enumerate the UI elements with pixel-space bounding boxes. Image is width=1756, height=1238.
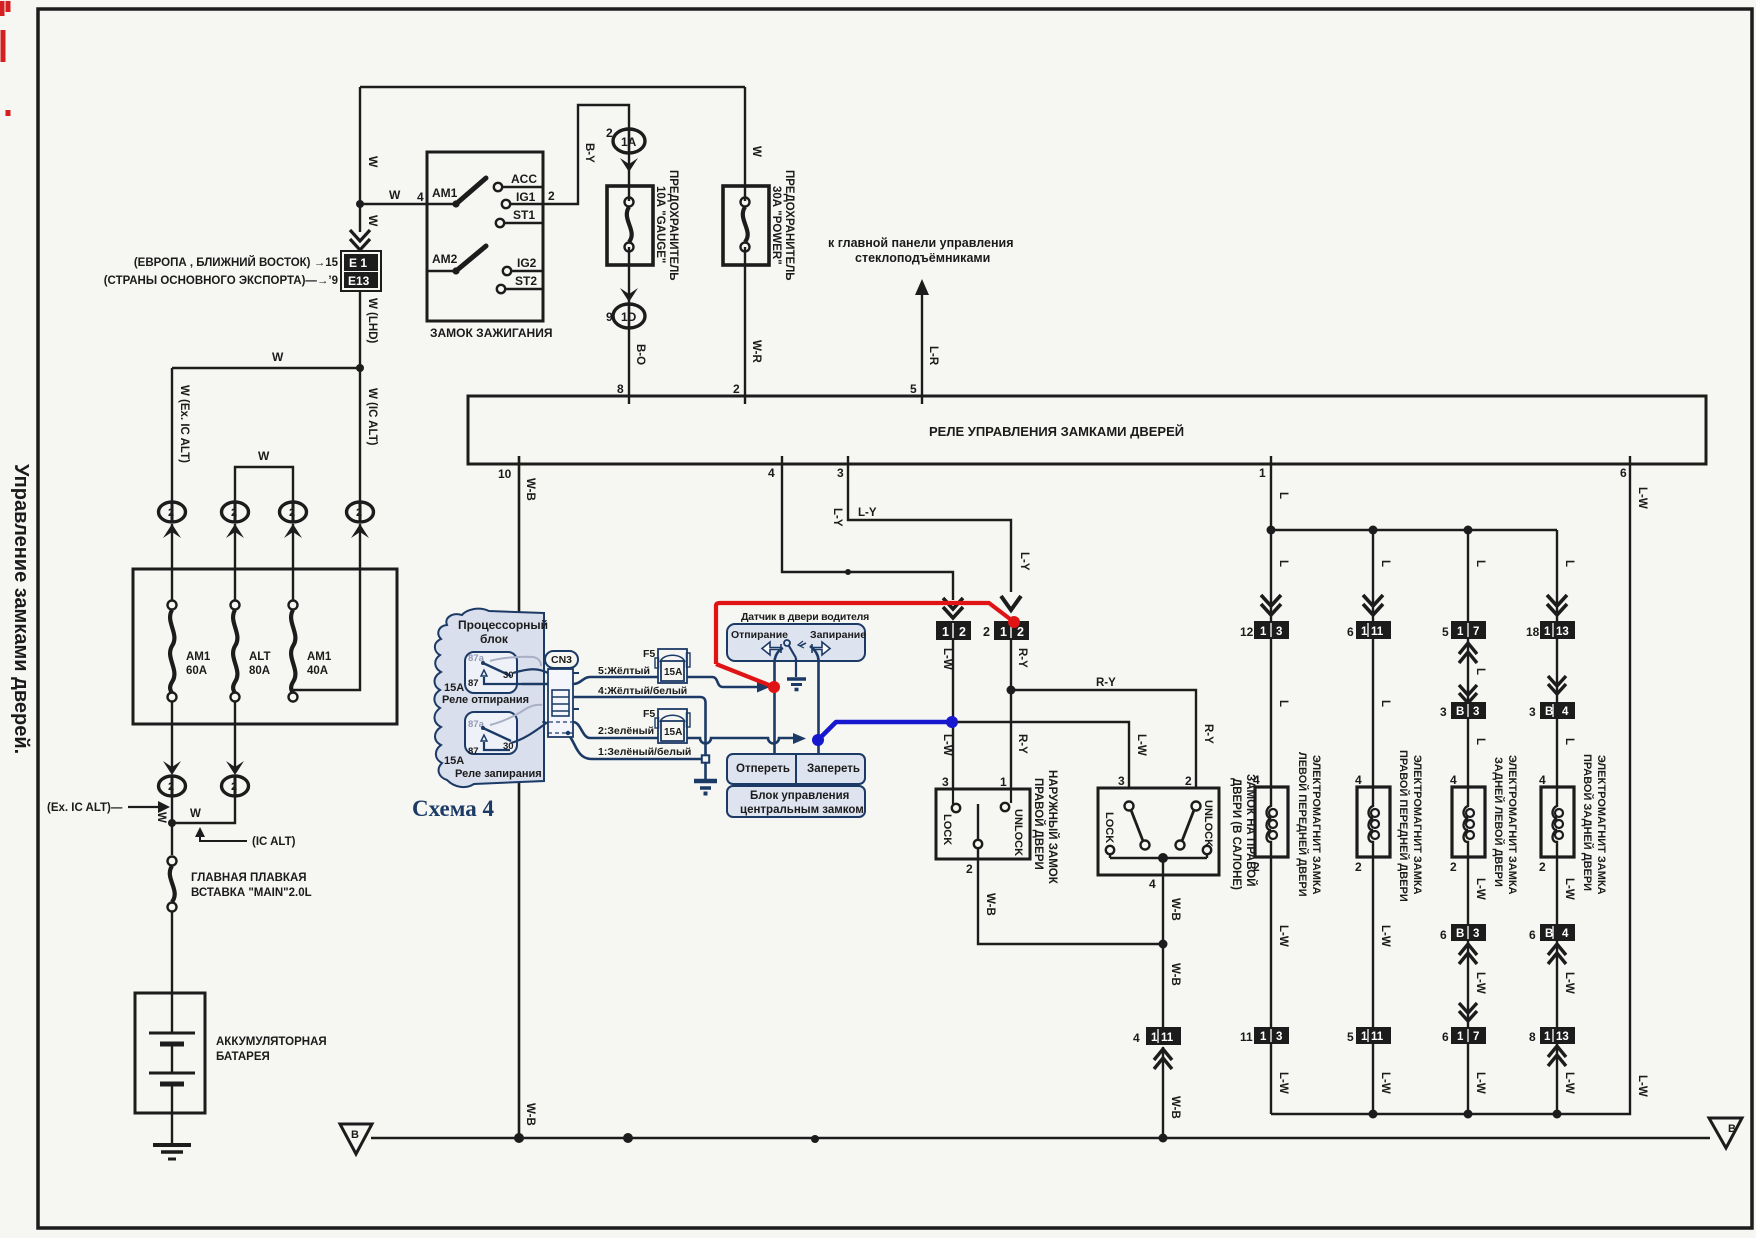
svg-text:W (LHD): W (LHD) xyxy=(366,298,378,344)
ground symbol under sensor switch xyxy=(787,658,806,690)
svg-text:60A: 60A xyxy=(186,665,207,677)
svg-text:ПРАВОЙ ПЕРЕДНЕЙ ДВЕРИ: ПРАВОЙ ПЕРЕДНЕЙ ДВЕРИ xyxy=(1397,750,1410,902)
fusible link box xyxy=(133,569,397,724)
svg-text:1D: 1D xyxy=(621,310,637,324)
wire 2 Зелёный (through fuse to blue node, with hops) xyxy=(573,722,793,744)
svg-text:L-W: L-W xyxy=(1563,1072,1575,1094)
svg-text:ЭЛЕКТРОМАГНИТ ЗАМКА: ЭЛЕКТРОМАГНИТ ЗАМКА xyxy=(1595,755,1607,895)
svg-text:2: 2 xyxy=(959,625,966,639)
svg-text:2: 2 xyxy=(1017,625,1024,639)
svg-text:ГЛАВНАЯ ПЛАВКАЯ: ГЛАВНАЯ ПЛАВКАЯ xyxy=(191,872,307,884)
svg-text:L-W: L-W xyxy=(1474,972,1486,994)
node small dot on pin4 run xyxy=(845,569,851,575)
svg-text:L: L xyxy=(1277,700,1289,707)
arrow chevron up below 6B4 xyxy=(1548,944,1566,964)
arrow chevron down into 6 I7 xyxy=(1459,1003,1477,1021)
contact AM2 xyxy=(427,246,486,275)
contact ACC xyxy=(494,172,543,191)
svg-text:4: 4 xyxy=(1562,706,1569,718)
svg-text:E13: E13 xyxy=(348,274,370,288)
contact IG1 xyxy=(502,190,543,208)
svg-text:ПРАВОЙ ЗАДНЕЙ ДВЕРИ: ПРАВОЙ ЗАДНЕЙ ДВЕРИ xyxy=(1581,754,1594,891)
relay box РЕЛЕ УПРАВЛЕНИЯ ЗАМКАМИ ДВЕРЕЙ xyxy=(468,396,1706,464)
svg-text:B: B xyxy=(351,1129,359,1141)
wire 5 Жёлтый (from CN3 through fuse to red node) xyxy=(522,677,757,687)
svg-text:W: W xyxy=(366,156,380,168)
arrow chevron down below 1A xyxy=(620,158,638,172)
svg-text:4: 4 xyxy=(1355,773,1362,787)
svg-text:L-W: L-W xyxy=(1277,925,1289,947)
wire W-B from relay pin 10 to bottom rail xyxy=(518,456,521,1138)
command box Отпереть / Запереть xyxy=(727,754,865,784)
node: junction (172,823) xyxy=(168,819,176,827)
svg-text:3: 3 xyxy=(942,775,949,789)
connector CN3 oval xyxy=(545,651,578,668)
svg-text:L: L xyxy=(1277,560,1289,567)
svg-text:1: 1 xyxy=(942,625,949,639)
svg-text:4: 4 xyxy=(417,190,424,204)
wire sensor left pole to Отпереть xyxy=(775,648,784,754)
svg-text:L-W: L-W xyxy=(1636,1075,1648,1097)
svg-text:3: 3 xyxy=(1118,774,1125,788)
svg-text:L-W: L-W xyxy=(1135,734,1147,756)
processor unit cloud Процессорный блок xyxy=(434,609,544,787)
svg-text:13: 13 xyxy=(1556,626,1569,638)
svg-text:5: 5 xyxy=(1442,625,1449,639)
svg-text:R-Y: R-Y xyxy=(1016,648,1028,668)
svg-text:87: 87 xyxy=(468,746,479,757)
svg-text:ЭЛЕКТРОМАГНИТ ЗАМКА: ЭЛЕКТРОМАГНИТ ЗАМКА xyxy=(1411,755,1423,895)
svg-text:1:Зелёный/белый: 1:Зелёный/белый xyxy=(598,746,691,758)
wire L-W branch from junction to box B pin 3 xyxy=(952,722,1129,788)
svg-text:87: 87 xyxy=(468,678,479,689)
connector oval 1A xyxy=(606,126,645,153)
svg-text:1: 1 xyxy=(1260,626,1267,638)
svg-text:W: W xyxy=(366,215,380,227)
svg-text:ВСТАВКА "MAIN"2.0L: ВСТАВКА "MAIN"2.0L xyxy=(191,887,312,899)
wires below fusible link box xyxy=(172,701,235,773)
svg-text:ЗАМОК ЗАЖИГАНИЯ: ЗАМОК ЗАЖИГАНИЯ xyxy=(430,326,552,340)
svg-text:B: B xyxy=(1728,1123,1736,1135)
arrow chevron up below 4 I11 xyxy=(1154,1049,1172,1069)
svg-text:B-Y: B-Y xyxy=(583,143,595,163)
wire: top feed horizontal W xyxy=(360,86,745,88)
svg-text:Запирание: Запирание xyxy=(810,629,866,641)
node dots on return bus xyxy=(1369,1110,1378,1119)
svg-text:L: L xyxy=(1474,668,1486,675)
svg-text:40A: 40A xyxy=(307,665,328,677)
svg-text:3: 3 xyxy=(1440,705,1447,719)
svg-text:AM2: AM2 xyxy=(432,252,458,266)
svg-text:2: 2 xyxy=(1450,860,1457,874)
node open square junction (wire1+wire4) xyxy=(702,755,709,762)
svg-text:R-Y: R-Y xyxy=(1202,724,1214,744)
svg-text:блок: блок xyxy=(480,632,509,646)
svg-text:Блок управления: Блок управления xyxy=(750,790,849,802)
node dot rail at x628 xyxy=(623,1133,633,1143)
svg-text:L-W: L-W xyxy=(1474,878,1486,900)
svg-text:ACC: ACC xyxy=(511,172,537,186)
node junction W-B (1163,944) xyxy=(1159,940,1168,949)
svg-text:15А: 15А xyxy=(444,755,464,767)
note (IC ALT) leader xyxy=(200,835,247,841)
svg-text:1: 1 xyxy=(1259,466,1266,480)
svg-text:LOCK: LOCK xyxy=(1103,812,1115,843)
svg-text:ПРЕДОХРАНИТЕЛЬ: ПРЕДОХРАНИТЕЛЬ xyxy=(783,170,795,281)
svg-text:L-W: L-W xyxy=(941,648,953,670)
node dot rail at x815 xyxy=(811,1135,819,1143)
svg-text:(IC ALT): (IC ALT) xyxy=(252,836,296,848)
wire 4 Жёлтый/белый (to ground) xyxy=(573,697,706,755)
svg-text:3: 3 xyxy=(1473,928,1479,940)
svg-text:W-R: W-R xyxy=(750,340,762,363)
svg-text:L-Y: L-Y xyxy=(1018,552,1030,571)
ground rail W-B across bottom xyxy=(371,1137,1710,1139)
arrow outline right (lock direction) xyxy=(812,642,830,655)
fuse 30A POWER box xyxy=(723,186,769,265)
wire R-Y branch to box B pin 2 xyxy=(1011,690,1196,788)
svg-text:3: 3 xyxy=(1276,626,1282,638)
svg-text:Запереть: Запереть xyxy=(807,763,860,775)
svg-text:B: B xyxy=(1545,928,1553,940)
svg-text:L: L xyxy=(1277,492,1289,499)
svg-text:2: 2 xyxy=(733,382,740,396)
svg-text:15А: 15А xyxy=(444,682,464,694)
arrow chevron double down into E1 xyxy=(350,230,370,250)
svg-text:L-Y: L-Y xyxy=(831,508,843,527)
svg-text:10: 10 xyxy=(498,467,512,481)
svg-text:ST1: ST1 xyxy=(513,208,535,222)
svg-text:2: 2 xyxy=(966,862,973,876)
wire: W horizontal into ignition AM1 pin 4 xyxy=(360,203,456,205)
svg-text:ПРЕДОХРАНИТЕЛЬ: ПРЕДОХРАНИТЕЛЬ xyxy=(667,170,679,281)
svg-text:L-R: L-R xyxy=(927,346,939,366)
svg-text:4: 4 xyxy=(1562,928,1569,940)
svg-text:W: W xyxy=(750,146,762,157)
svg-text:1: 1 xyxy=(1457,626,1464,638)
node red dot at connector I12#2 xyxy=(1008,616,1020,628)
connector I12 #1 (pins 1 2) xyxy=(936,621,971,640)
svg-text:AM1: AM1 xyxy=(432,186,458,200)
ground point triangle B left xyxy=(340,1124,372,1154)
svg-text:B: B xyxy=(1545,706,1553,718)
svg-text:W-B: W-B xyxy=(1169,898,1181,921)
vertical page title: Управление замками дверей. xyxy=(10,464,32,754)
svg-text:Реле отпирания: Реле отпирания xyxy=(442,694,529,706)
bulkhead connector 2 below box col1 xyxy=(159,776,186,797)
svg-text:W (Ex. IC ALT): W (Ex. IC ALT) xyxy=(178,385,190,463)
svg-text:5: 5 xyxy=(1347,1030,1354,1044)
actuator solenoid col2 xyxy=(1355,773,1390,874)
svg-text:18: 18 xyxy=(1526,625,1540,639)
svg-text:6: 6 xyxy=(1440,928,1447,942)
svg-text:2:Зелёный: 2:Зелёный xyxy=(598,725,654,737)
node: junction at (360,368) xyxy=(356,364,364,372)
connector 11 I3 xyxy=(1240,1027,1289,1044)
wires into fusible link box xyxy=(172,524,360,690)
door lock box A НАРУЖНЫЙ ЗАМОК ПРАВОЙ ДВЕРИ xyxy=(936,775,1030,876)
arrow chevron down into connector 3 B3 xyxy=(1459,685,1477,703)
svg-text:2: 2 xyxy=(231,781,237,793)
svg-text:3: 3 xyxy=(1276,1031,1282,1043)
connector I12 #2 (pins 1 2) with pin number 2 xyxy=(983,621,1029,640)
svg-text:12: 12 xyxy=(1240,625,1254,639)
svg-text:4: 4 xyxy=(1149,877,1156,891)
ground below battery xyxy=(153,1145,191,1159)
wire L-R up-arrow to window panel xyxy=(915,279,929,295)
svg-text:1: 1 xyxy=(1260,1031,1267,1043)
svg-text:ЛЕВОЙ ПЕРЕДНЕЙ ДВЕРИ: ЛЕВОЙ ПЕРЕДНЕЙ ДВЕРИ xyxy=(1296,752,1309,897)
svg-text:3: 3 xyxy=(1473,706,1479,718)
connector 5 I11 xyxy=(1347,1027,1391,1044)
svg-text:3: 3 xyxy=(837,466,844,480)
svg-text:L-W: L-W xyxy=(1474,1072,1486,1094)
svg-text:РЕЛЕ УПРАВЛЕНИЯ ЗАМКАМИ ДВЕРЕЙ: РЕЛЕ УПРАВЛЕНИЯ ЗАМКАМИ ДВЕРЕЙ xyxy=(929,424,1184,439)
actuator solenoid col4 xyxy=(1539,773,1574,874)
svg-text:UNLOCK: UNLOCK xyxy=(1202,800,1214,847)
connector 6 I11 xyxy=(1347,621,1391,639)
wire: col1 down to W junction xyxy=(171,797,173,855)
svg-text:2: 2 xyxy=(983,625,990,639)
svg-text:4:Жёлтый/белый: 4:Жёлтый/белый xyxy=(598,685,687,697)
svg-text:6: 6 xyxy=(1529,928,1536,942)
door sensor box xyxy=(727,624,865,661)
connector 6 I7 xyxy=(1442,1027,1486,1044)
red highlight wire (unlock signal path) xyxy=(716,603,1014,687)
svg-text:8: 8 xyxy=(617,382,624,396)
svg-text:AM1: AM1 xyxy=(307,651,332,663)
svg-text:13: 13 xyxy=(1556,1031,1569,1043)
wire to ground below node xyxy=(704,763,707,779)
wire 1 Зелёный/белый (to ground node) xyxy=(568,734,701,759)
svg-text:W (IC ALT): W (IC ALT) xyxy=(366,388,378,446)
svg-text:R-Y: R-Y xyxy=(1096,677,1116,689)
svg-text:ЭЛЕКТРОМАГНИТ ЗАМКА: ЭЛЕКТРОМАГНИТ ЗАМКА xyxy=(1310,755,1322,895)
svg-text:L-W: L-W xyxy=(1379,925,1391,947)
node junction at rail xyxy=(1159,1134,1168,1143)
svg-text:11: 11 xyxy=(1240,1030,1253,1044)
svg-text:W-B: W-B xyxy=(524,478,536,501)
sensor switch pivot and arm xyxy=(784,640,806,658)
svg-text:11: 11 xyxy=(1371,626,1384,638)
svg-text:5: 5 xyxy=(910,382,917,396)
contact ST1 xyxy=(496,208,543,227)
svg-text:B-O: B-O xyxy=(634,344,646,365)
svg-text:1: 1 xyxy=(1000,775,1007,789)
node bus junctions xyxy=(1267,526,1276,535)
arrow outline left (unlock direction) xyxy=(762,642,781,655)
svg-text:2: 2 xyxy=(548,189,555,203)
svg-text:(ЕВРОПА , БЛИЖНИЙ ВОСТОК) →15: (ЕВРОПА , БЛИЖНИЙ ВОСТОК) →15 xyxy=(134,256,339,269)
contact AM1 xyxy=(432,178,486,208)
svg-text:Отпереть: Отпереть xyxy=(736,763,790,775)
svg-text:10А "GAUGE": 10А "GAUGE" xyxy=(654,186,666,263)
svg-text:W-B: W-B xyxy=(524,1103,536,1126)
wire W-B from box B pin 4 down xyxy=(1162,875,1164,1028)
svg-text:L: L xyxy=(1474,560,1486,567)
door lock box B ЗАМОК НА ПРАВОЙ ДВЕРИ (В САЛОНЕ) xyxy=(1098,774,1219,875)
wire sensor right pole to Запереть xyxy=(810,646,819,754)
ignition switch box ЗАМОК ЗАЖИГАНИЯ xyxy=(427,152,543,321)
connector 8 I13 xyxy=(1529,1027,1575,1044)
node blue dot at L-W junction xyxy=(946,716,958,728)
svg-text:8: 8 xyxy=(1529,1030,1536,1044)
wire W-B to bottom rail xyxy=(1162,1047,1164,1138)
control unit box Блок управления центральным замком xyxy=(727,786,865,817)
node blue dot at Запереть line xyxy=(812,734,824,746)
svg-text:CN3: CN3 xyxy=(551,654,572,666)
svg-text:4: 4 xyxy=(1133,1031,1140,1045)
svg-text:ALT: ALT xyxy=(249,651,271,663)
actuator solenoid col1 xyxy=(1253,773,1288,874)
lock relay Реле запирания (box) xyxy=(465,705,542,757)
battery box xyxy=(135,993,205,1113)
connector 6 B4 xyxy=(1529,924,1575,942)
return bus L-W to relay pin 6 xyxy=(1271,456,1630,1114)
fusible link AM1 60A xyxy=(168,601,177,702)
svg-text:2: 2 xyxy=(1355,860,1362,874)
connector 5 I7 xyxy=(1442,621,1486,639)
svg-text:B: B xyxy=(1456,928,1464,940)
svg-text:центральным замком: центральным замком xyxy=(740,804,864,816)
connector 3 B4 xyxy=(1529,702,1575,719)
svg-text:4: 4 xyxy=(1253,773,1260,787)
wire: to battery xyxy=(171,911,173,1033)
svg-text:7: 7 xyxy=(1473,626,1479,638)
svg-text:L: L xyxy=(1379,700,1391,707)
wire from relay pin 4 (zigzag to connector I12 left) xyxy=(782,456,953,600)
contact IG2 xyxy=(503,256,543,275)
svg-text:30А "POWER": 30А "POWER" xyxy=(770,186,782,265)
svg-text:1: 1 xyxy=(1361,626,1368,638)
svg-text:L-W: L-W xyxy=(941,734,953,756)
connector 4 I11 xyxy=(1133,1027,1181,1045)
wire: left column down to bulkhead connector xyxy=(171,368,173,502)
svg-text:НАРУЖНЫЙ ЗАМОК: НАРУЖНЫЙ ЗАМОК xyxy=(1046,770,1059,885)
svg-text:L: L xyxy=(1563,560,1575,567)
svg-text:L: L xyxy=(1474,738,1486,745)
main fusible link MAIN 2.0L xyxy=(168,857,177,912)
svg-text:UNLOCK: UNLOCK xyxy=(1012,809,1024,856)
red scan marks top-left edge xyxy=(2,1,8,116)
svg-text:2: 2 xyxy=(606,126,613,140)
node: junction W at (360,204) xyxy=(356,200,364,208)
svg-text:6: 6 xyxy=(1347,625,1354,639)
arrow chevron down into connector (col1) xyxy=(163,761,181,775)
svg-text:Реле запирания: Реле запирания xyxy=(455,768,542,780)
svg-text:L-W: L-W xyxy=(1563,878,1575,900)
wires from row4 to return bus xyxy=(1271,1044,1557,1114)
arrow chevrons into connectors c1 c2 c4 xyxy=(1261,595,1567,615)
unlock relay Реле отпирания (box) xyxy=(465,652,541,693)
svg-text:IG2: IG2 xyxy=(517,256,537,270)
svg-text:6: 6 xyxy=(1620,466,1627,480)
svg-text:БАТАРЕЯ: БАТАРЕЯ xyxy=(216,1051,270,1063)
wire R-Y from I12#2 down to door lock box A pin 1 xyxy=(1010,640,1012,789)
connector 6 B3 xyxy=(1440,924,1486,942)
wire W down to POWER fuse xyxy=(744,87,746,201)
arrow chevron down above 1D xyxy=(620,288,638,302)
node red dot at sensor unlock xyxy=(768,681,780,693)
wire: jumper to col2 xyxy=(172,797,235,823)
svg-text:9: 9 xyxy=(606,310,613,324)
wire W-R down to relay pin 2 xyxy=(744,247,746,404)
connector block below CN3 xyxy=(542,669,579,737)
wire: W below E13 down to junction xyxy=(359,291,361,368)
wire L-W from I12#1 down to door lock box A pin 3 xyxy=(952,640,954,789)
wire drops from bus to connector row xyxy=(1271,530,1557,621)
wire into GAUGE fuse xyxy=(628,153,630,201)
wire: W horizontal branch to left column xyxy=(172,367,360,369)
svg-text:ЗАДНЕЙ ЛЕВОЙ ДВЕРИ: ЗАДНЕЙ ЛЕВОЙ ДВЕРИ xyxy=(1492,757,1505,887)
svg-text:стеклоподъёмниками: стеклоподъёмниками xyxy=(855,251,990,265)
svg-text:F5: F5 xyxy=(643,648,655,660)
svg-text:1: 1 xyxy=(1457,1031,1464,1043)
svg-text:W-B: W-B xyxy=(984,893,996,916)
svg-text:F5: F5 xyxy=(643,708,655,720)
wire: right column down to bulkhead connector xyxy=(359,368,361,502)
arrowhead wire 5 xyxy=(757,682,770,693)
svg-text:L-W: L-W xyxy=(1636,487,1648,509)
svg-text:1: 1 xyxy=(1544,626,1551,638)
svg-text:E 1: E 1 xyxy=(349,256,367,270)
svg-text:15А: 15А xyxy=(664,727,682,738)
ground symbol (centre section) xyxy=(694,781,717,794)
battery cells xyxy=(149,1033,195,1145)
wire W-B from box A pin 2 xyxy=(978,875,1163,944)
contact ST2 xyxy=(497,274,543,293)
wire below GAUGE fuse xyxy=(628,247,630,303)
svg-text:L: L xyxy=(1379,560,1391,567)
svg-text:3: 3 xyxy=(1529,705,1536,719)
arrow chevron down between 18I13 and 3B4 xyxy=(1548,676,1566,694)
arrowhead wire 2 xyxy=(793,733,806,744)
svg-text:LOCK: LOCK xyxy=(941,814,953,845)
svg-text:5:Жёлтый: 5:Жёлтый xyxy=(598,665,650,677)
svg-text:(СТРАНЫ ОСНОВНОГО ЭКСПОРТА)—→’: (СТРАНЫ ОСНОВНОГО ЭКСПОРТА)—→’9 xyxy=(104,275,338,287)
svg-text:ПРАВОЙ ДВЕРИ: ПРАВОЙ ДВЕРИ xyxy=(1032,778,1045,870)
svg-text:7: 7 xyxy=(1473,1031,1479,1043)
svg-text:ST2: ST2 xyxy=(515,274,537,288)
svg-text:1: 1 xyxy=(1000,625,1007,639)
fuse F5 15А (upper) xyxy=(643,648,690,683)
svg-text:ЭЛЕКТРОМАГНИТ ЗАМКА: ЭЛЕКТРОМАГНИТ ЗАМКА xyxy=(1506,755,1518,895)
svg-text:W-B: W-B xyxy=(1169,963,1181,986)
svg-text:2: 2 xyxy=(1185,774,1192,788)
svg-text:6: 6 xyxy=(1442,1030,1449,1044)
arrow chevron down into connector I12 #2 xyxy=(1001,596,1021,610)
svg-text:W-B: W-B xyxy=(1169,1096,1181,1119)
wire relay2 30 contact to CN3 xyxy=(511,722,548,743)
svg-text:Процессорный: Процессорный xyxy=(458,618,548,632)
svg-text:11: 11 xyxy=(1161,1032,1174,1044)
wire from relay pin 3 (zigzag to connector I12 right) xyxy=(848,456,1011,592)
arrow chevron down into connector (col2) xyxy=(226,761,244,775)
connector 18 I13 xyxy=(1526,621,1575,639)
svg-text:2: 2 xyxy=(1253,860,1260,874)
svg-text:11: 11 xyxy=(1371,1031,1384,1043)
blue highlight wire (lock signal path) xyxy=(818,722,950,740)
svg-text:W: W xyxy=(155,812,167,823)
svg-text:2: 2 xyxy=(1539,860,1546,874)
connector 12 I3 xyxy=(1240,621,1289,639)
wires c1..c4 connector row to actuators xyxy=(1271,639,1557,787)
svg-text:1: 1 xyxy=(1361,1031,1368,1043)
svg-text:(Ex. IC ALT)—: (Ex. IC ALT)— xyxy=(47,802,123,814)
svg-text:2: 2 xyxy=(168,781,174,793)
ground point triangle B right xyxy=(1709,1118,1742,1148)
svg-text:Датчик в двери водителя: Датчик в двери водителя xyxy=(741,611,869,623)
